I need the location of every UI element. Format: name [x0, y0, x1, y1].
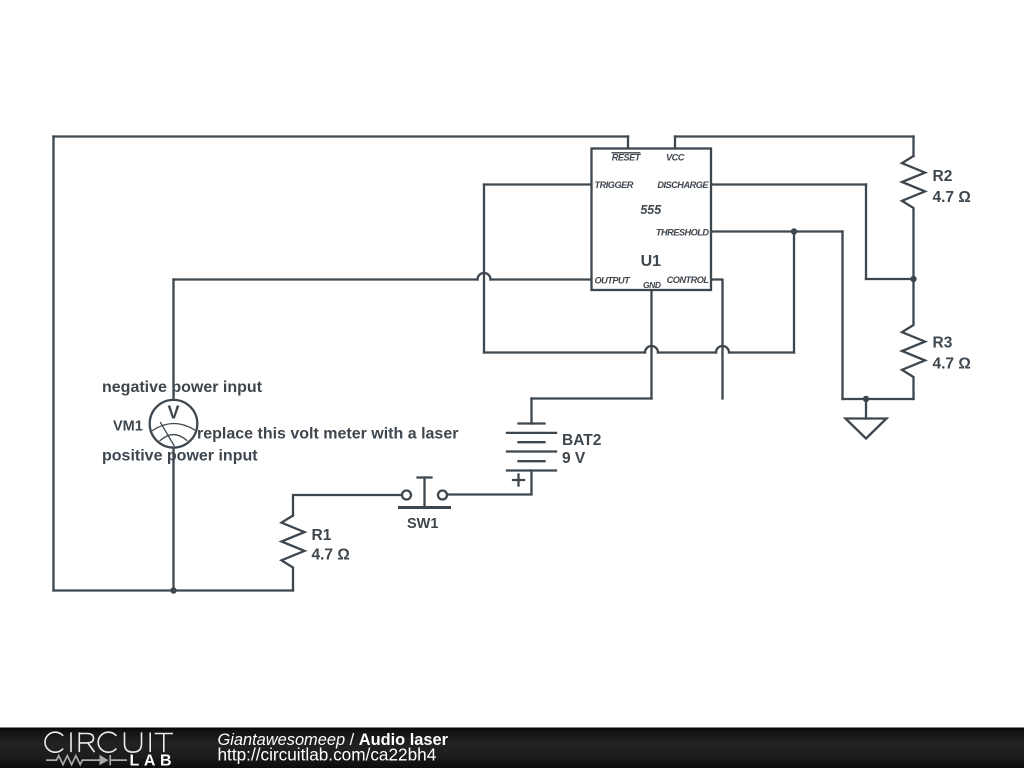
svg-text:555: 555: [640, 203, 662, 217]
logo resistor-diode strip: [46, 755, 127, 765]
wire: vertical up to threshold junction: [793, 232, 795, 353]
U1 pin label GND: [643, 280, 661, 290]
switch SW1 (push button): [400, 478, 450, 508]
wire: hop over trigger wire on output run: [478, 273, 491, 280]
wire: gnd horizontal run to battery: [532, 397, 652, 399]
wire: OUTPUT pin horizontal run (left part): [174, 278, 478, 280]
annotation: positive power input: [102, 448, 258, 465]
wire: VM1 bottom stem: [172, 448, 174, 591]
svg-text:replace this volt meter with a: replace this volt meter with a laser: [197, 426, 458, 443]
U1 pin label DISCHARGE: [657, 180, 709, 190]
label VM1: [113, 419, 143, 435]
battery BAT2: [507, 424, 556, 486]
wire: trigger-threshold horizontal run (right part): [729, 351, 794, 353]
annotation: negative power input: [102, 379, 263, 396]
voltmeter VM1: [150, 400, 198, 448]
svg-text:U1: U1: [641, 253, 662, 270]
wire: battery plus stem to SW1: [448, 471, 532, 495]
svg-text:CONTROL: CONTROL: [667, 275, 710, 285]
node: junction on threshold wire: [791, 228, 797, 234]
svg-text:OUTPUT: OUTPUT: [595, 276, 632, 286]
svg-text:TRIGGER: TRIGGER: [595, 180, 634, 190]
wire: ground rail to R3 bottom: [843, 398, 914, 400]
wire: DISCHARGE pin horizontal run: [711, 183, 866, 185]
U1 pin label CONTROL: [667, 275, 710, 285]
U1 pin label OUTPUT: [595, 276, 632, 286]
svg-text:V: V: [167, 402, 179, 422]
wire: threshold vertical down: [841, 232, 843, 400]
voltmeter V glyph: [167, 402, 179, 422]
wire: trigger-threshold horizontal run (middle part): [658, 351, 716, 353]
svg-text:DISCHARGE: DISCHARGE: [657, 180, 709, 190]
svg-text:RESET: RESET: [612, 153, 642, 163]
annotation: replace this volt meter with a laser: [197, 426, 458, 443]
wire: hop over gnd wire: [645, 346, 658, 353]
svg-text:4.7 Ω: 4.7 Ω: [312, 547, 350, 564]
footer bar: [0, 728, 1024, 768]
op-amp U1 box (555 timer): [592, 149, 712, 291]
resistor R2: [902, 156, 925, 279]
label R1: [312, 527, 350, 564]
svg-text:R2: R2: [933, 168, 953, 185]
wire: SW1 left terminal to R1 top: [293, 495, 402, 516]
wire: THRESHOLD pin horizontal run: [711, 230, 843, 232]
ground symbol: [846, 399, 887, 439]
svg-text:GND: GND: [643, 280, 661, 290]
wire: TRIGGER pin horizontal run: [484, 183, 592, 185]
svg-text:R1: R1: [312, 527, 332, 544]
svg-text:VCC: VCC: [666, 153, 685, 163]
U1 pin label THRESHOLD: [656, 227, 710, 237]
wire: top rail from VCC to R2: [675, 135, 914, 137]
svg-text:4.7 Ω: 4.7 Ω: [933, 189, 971, 206]
wire: CONTROL pin stub (dangling): [711, 280, 723, 399]
footer url: [218, 745, 437, 765]
label SW1: [407, 516, 438, 532]
wire: discharge to R2/R3 junction: [866, 278, 914, 280]
U1 pin label RESET (with overline): [612, 153, 642, 163]
svg-text:negative power input: negative power input: [102, 379, 263, 396]
wire: R2 top stem: [912, 137, 914, 157]
wire: VM1 top stem: [172, 280, 174, 401]
U1 pin label TRIGGER: [595, 180, 634, 190]
wire: U1 GND pin stem down: [650, 290, 652, 399]
svg-text:BAT2: BAT2: [562, 432, 601, 449]
wire: discharge vertical down: [865, 185, 867, 280]
svg-text:LAB: LAB: [130, 752, 177, 768]
wire: U1 RESET pin stem: [627, 137, 629, 149]
svg-text:4.7 Ω: 4.7 Ω: [933, 356, 971, 373]
svg-text:THRESHOLD: THRESHOLD: [656, 227, 710, 237]
wire: battery top stem: [530, 399, 532, 424]
footer title: Giantawesomeep / Audio laser: [218, 731, 449, 749]
wire: trigger-threshold horizontal run (left part): [484, 351, 645, 353]
wire: bottom rail: [54, 589, 294, 591]
wire: top rail from RESET to top-left corner: [54, 135, 629, 137]
label R3: [933, 335, 971, 373]
logo CIRCUIT lettering: [45, 732, 173, 752]
logo LAB text: [130, 752, 177, 768]
node: junction at ground rail: [863, 396, 869, 402]
wire: hop over control stub: [716, 346, 729, 353]
node: junction R2/R3/discharge: [910, 276, 916, 282]
U1 designator U1: [641, 253, 662, 270]
label BAT2: [562, 432, 601, 467]
svg-text:VM1: VM1: [113, 419, 143, 435]
wire: OUTPUT pin horizontal run (right part): [491, 278, 592, 280]
svg-text:http://circuitlab.com/ca22bh4: http://circuitlab.com/ca22bh4: [218, 745, 437, 765]
U1 label 555: [640, 203, 662, 217]
wire: left rail: [52, 137, 54, 591]
svg-text:9 V: 9 V: [562, 450, 586, 467]
svg-text:R3: R3: [933, 335, 953, 352]
resistor R1: [282, 516, 305, 591]
wire: trigger vertical run: [483, 185, 485, 353]
node: junction on bottom rail at VM1: [170, 587, 176, 593]
label R2: [933, 168, 971, 206]
resistor R3: [902, 279, 925, 399]
wire: U1 VCC pin stem: [674, 137, 676, 149]
svg-text:positive power input: positive power input: [102, 448, 258, 465]
svg-text:SW1: SW1: [407, 516, 438, 532]
U1 pin label VCC: [666, 153, 685, 163]
